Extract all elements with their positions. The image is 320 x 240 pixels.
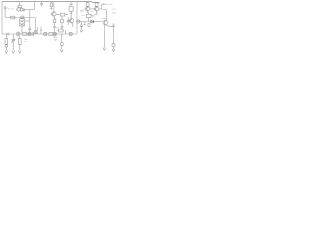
wire bbox=[29, 10, 31, 28]
oscillator block Q1 bbox=[16, 2, 25, 12]
label bbox=[82, 14, 85, 16]
resistor R5 chain bbox=[61, 16, 64, 29]
resistor R10 bbox=[49, 33, 53, 36]
battery B1 bbox=[4, 6, 7, 12]
wire bbox=[103, 24, 105, 45]
label bbox=[112, 9, 117, 13]
label bbox=[94, 14, 99, 16]
wire bbox=[4, 12, 6, 17]
crystal X1 bbox=[69, 2, 73, 19]
capacitor C2 bbox=[29, 28, 32, 34]
mixer M4 bbox=[53, 32, 56, 37]
pot circle bbox=[77, 20, 80, 23]
resistor R3 bbox=[56, 13, 68, 16]
capacitor C3 bbox=[40, 2, 43, 7]
wire long vertical bbox=[76, 2, 78, 34]
stage resistor R6 bbox=[86, 2, 89, 7]
resistor stub bbox=[88, 23, 90, 26]
transistor Q5 bbox=[94, 6, 99, 13]
transformer T1 bbox=[20, 18, 30, 35]
IC box U1 bbox=[86, 13, 94, 22]
label bbox=[80, 10, 84, 12]
capacitor tick bbox=[7, 33, 8, 36]
capacitor C6 bbox=[32, 32, 33, 36]
wire out bbox=[99, 4, 105, 9]
wire horizontal y17.5 bbox=[5, 17, 35, 19]
wire left vertical bbox=[1, 2, 3, 34]
wire bbox=[38, 27, 42, 35]
transistor Q2 bbox=[50, 2, 56, 16]
transistor Q4 bbox=[85, 6, 90, 14]
wire bbox=[90, 8, 95, 10]
resistor R8 bbox=[23, 33, 27, 36]
resistor R13 chain bbox=[19, 36, 22, 48]
wire top supply rail bbox=[2, 1, 100, 4]
ground bbox=[12, 48, 15, 53]
label bbox=[102, 18, 106, 20]
diode D1 bbox=[91, 20, 94, 23]
stage resistor R7 bbox=[95, 2, 98, 6]
capacitor C1 box bbox=[21, 16, 24, 18]
resistor R2 bbox=[50, 2, 53, 10]
resistor R4 chain bbox=[53, 16, 56, 32]
wire right bus bbox=[76, 21, 103, 23]
resistor R12 chain bbox=[5, 34, 8, 48]
label bbox=[91, 10, 94, 12]
label bbox=[56, 27, 58, 29]
resistor R11 bbox=[57, 29, 65, 34]
ground bbox=[103, 45, 106, 50]
transistor Q3 bbox=[68, 19, 74, 28]
capacitor C12 ground chain bbox=[60, 34, 63, 48]
transistor Q6 bbox=[103, 10, 114, 27]
capacitor C5 bbox=[67, 17, 70, 25]
wire mid horizontal bus bbox=[2, 33, 77, 35]
label bbox=[54, 37, 58, 40]
capacitor C10 bbox=[112, 23, 115, 43]
wire bbox=[25, 2, 35, 10]
ground bbox=[80, 29, 83, 32]
source V1 bbox=[44, 32, 47, 35]
capacitor C9 chain bbox=[80, 22, 83, 29]
mixer M2 bbox=[28, 32, 31, 35]
label bbox=[8, 8, 14, 10]
ground bbox=[5, 48, 8, 53]
capacitor stub bbox=[84, 22, 86, 25]
label bbox=[24, 40, 27, 42]
resistor R1 bbox=[11, 16, 15, 19]
amp A1 bbox=[69, 32, 72, 35]
ground bbox=[18, 48, 21, 53]
trimmer C11 bbox=[11, 34, 15, 48]
ground connector bbox=[112, 44, 115, 52]
wire bbox=[34, 18, 36, 35]
ground bbox=[60, 48, 63, 52]
component bbox=[34, 31, 37, 34]
label output bbox=[105, 3, 113, 5]
mixer M1 bbox=[16, 32, 20, 36]
